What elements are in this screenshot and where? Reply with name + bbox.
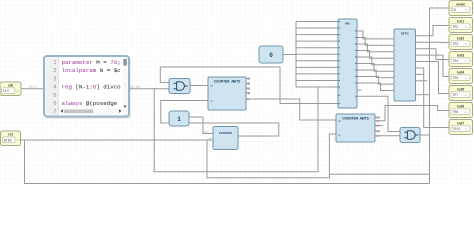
wire counter2 q1 stub xyxy=(375,116,380,118)
svg-text:4: 4 xyxy=(53,85,56,91)
svg-text:led1: led1 xyxy=(457,19,464,23)
wire AND2 output to verde vertical xyxy=(420,134,430,136)
wire clk branch down to bottom rail xyxy=(154,87,318,172)
svg-text:COUNTER_4BITS: COUNTER_4BITS xyxy=(342,116,369,120)
svg-text:TR7: TR7 xyxy=(452,93,458,97)
svg-text:‹ ›: ‹ › xyxy=(16,139,19,143)
wire top loop: AND1 in1 / MUX select net xyxy=(160,67,338,104)
wire mux out3 to dffs xyxy=(357,44,394,52)
svg-text:COUNTER_4BITS: COUNTER_4BITS xyxy=(214,79,241,83)
output port led1 xyxy=(449,18,473,33)
wire mux out stub xyxy=(357,89,362,91)
wire mux input bus vertical xyxy=(295,22,297,88)
svg-text:DFFS: DFFS xyxy=(401,32,409,36)
wire dffs q2 to led2 xyxy=(416,41,450,43)
wire bus branch 11 xyxy=(296,86,338,88)
svg-text:TR10: TR10 xyxy=(452,127,460,131)
wire bus branch 6 xyxy=(296,53,338,55)
wire mux out5 to dffs xyxy=(357,57,394,65)
wire counter2 q3 stub xyxy=(375,125,383,127)
wire bus branch 2 xyxy=(296,27,338,29)
wire bus branch 1 xyxy=(296,21,338,23)
svg-text:clk: clk xyxy=(8,83,13,87)
wire rst main run to FFDOPN xyxy=(21,139,214,141)
svg-text:led2: led2 xyxy=(457,36,464,40)
output port led4 xyxy=(449,69,473,84)
wire bus branch 8 xyxy=(296,66,338,68)
svg-text:rst: rst xyxy=(210,100,213,103)
svg-text:clk_s: clk_s xyxy=(203,131,209,134)
wire dffs q3 to led3 xyxy=(416,49,450,60)
output port led3 xyxy=(449,52,473,67)
wire bus branch 3 xyxy=(296,34,338,36)
svg-text:FFDOPN: FFDOPN xyxy=(219,131,231,135)
svg-text:‹ ›: ‹ › xyxy=(465,76,468,80)
output port verde xyxy=(449,1,473,16)
wire counter2 q5 to AND2 in2 xyxy=(375,135,400,137)
ff block FFDOPN xyxy=(213,127,238,150)
wire mux out10 to AND2 in1 xyxy=(357,96,400,131)
wire rst drop mid to counter2 rst xyxy=(207,134,336,178)
svg-text:TR6: TR6 xyxy=(452,76,458,80)
input port rst xyxy=(1,131,21,146)
svg-text:led3: led3 xyxy=(457,53,464,57)
and-gate AND1 xyxy=(169,79,190,94)
wire dffs q6 to led7 xyxy=(416,68,450,128)
wire bus branch 7 xyxy=(296,60,338,62)
svg-text:led6: led6 xyxy=(457,104,464,108)
wire verde vertical rail xyxy=(430,8,450,184)
editor vertical scrollbar xyxy=(123,58,128,116)
wire counter1 co to counter2 clk xyxy=(246,99,336,120)
wire mux out9 to dffs xyxy=(357,83,394,91)
svg-text:‹ ›: ‹ › xyxy=(465,59,468,63)
svg-text:‹ ›: ‹ › xyxy=(465,42,468,46)
svg-text:MX: MX xyxy=(345,22,350,26)
wire dffs q7 stub xyxy=(416,73,425,75)
wire mux out4 to dffs xyxy=(357,51,394,59)
wire bus branch 10 xyxy=(296,79,338,81)
verilog code block editor xyxy=(44,56,131,119)
wire bus branch 9 xyxy=(296,73,338,75)
module COUNTER_4BITS U2 xyxy=(336,114,375,142)
wire rst drop left to bottom-most rail xyxy=(25,140,430,184)
svg-text:always @(posedge: always @(posedge xyxy=(62,100,118,107)
output port led5 xyxy=(449,86,473,101)
svg-text:TR4: TR4 xyxy=(452,59,458,63)
wire dffs q1 to led1 xyxy=(416,26,450,36)
dff block DFFS xyxy=(394,29,416,101)
wire AND1 output to COUNTER1 clk xyxy=(190,85,208,87)
svg-text:led4: led4 xyxy=(457,70,464,74)
svg-text:led5: led5 xyxy=(457,87,464,91)
wire counter2 q4 stub xyxy=(375,130,380,132)
wire dffs bottom q to verde vertical xyxy=(416,94,430,96)
editor horizontal scrollbar xyxy=(60,109,123,115)
wire counter1 q1 stub xyxy=(246,87,250,89)
wire FFDOPN q to counter1 rst net xyxy=(161,101,279,137)
svg-text:TR2: TR2 xyxy=(452,25,458,29)
output port led2 xyxy=(449,35,473,50)
wire counter1 q3 stub xyxy=(246,77,250,79)
wire dffs q4 to led4 xyxy=(416,55,450,76)
constant 1 xyxy=(169,111,189,126)
svg-text:TR8: TR8 xyxy=(452,110,458,114)
output port led7 xyxy=(449,120,473,135)
svg-text:5: 5 xyxy=(53,93,56,99)
svg-text:6: 6 xyxy=(53,101,56,107)
input port clk xyxy=(0,82,21,96)
svg-text:3: 3 xyxy=(53,76,56,82)
mux MUX1 xyxy=(338,19,357,108)
svg-text:‹ ›: ‹ › xyxy=(16,89,19,93)
and-gate AND2 xyxy=(400,128,420,143)
wire clk net: clk input to AND1 in2 (passes under code block) xyxy=(21,88,169,90)
output port led6 xyxy=(449,103,473,118)
svg-text:‹ ›: ‹ › xyxy=(465,8,468,12)
mux output pin ticks xyxy=(355,30,356,96)
wire mux out6 to dffs xyxy=(357,64,394,72)
svg-text:‹ ›: ‹ › xyxy=(465,25,468,29)
svg-text:1: 1 xyxy=(53,60,56,66)
svg-text:BTN0: BTN0 xyxy=(4,139,13,143)
svg-text:‹ ›: ‹ › xyxy=(465,127,468,131)
wire AND2 net bottom rail to counter2 rst riser xyxy=(329,173,429,175)
canvas background grid xyxy=(0,0,474,187)
svg-text:led7: led7 xyxy=(457,121,464,125)
pin labels counter2 q3 q2 q1 q0 co xyxy=(377,115,380,137)
svg-text:7: 7 xyxy=(53,109,56,115)
svg-text:‹ ›: ‹ › xyxy=(465,93,468,97)
wire mux out7 to dffs xyxy=(357,70,394,78)
svg-text:TR3: TR3 xyxy=(452,42,458,46)
svg-text:CLK: CLK xyxy=(3,89,10,93)
svg-text:clk_in: clk_in xyxy=(29,84,37,88)
svg-text:D0: D0 xyxy=(452,8,456,12)
svg-text:localparam N = $c: localparam N = $c xyxy=(62,67,122,74)
svg-text:‹ ›: ‹ › xyxy=(465,110,468,114)
svg-text:clk_out: clk_out xyxy=(131,85,141,89)
wire counter2 q2 to led6 xyxy=(375,106,449,121)
wire counter1 q0 stub xyxy=(246,92,250,94)
wire mux out1 to dffs xyxy=(357,31,394,39)
wire counter1 q2 stub xyxy=(246,82,250,84)
wire bus branch 4 xyxy=(296,40,338,42)
pin labels counter1 q3 q2 q1 q0 co xyxy=(247,77,250,102)
svg-text:parameter M = 78;: parameter M = 78; xyxy=(62,59,121,66)
wire dffs q8 stub xyxy=(416,80,428,82)
svg-text:rst: rst xyxy=(338,134,341,137)
svg-text:rst: rst xyxy=(8,133,13,137)
module COUNTER_4BITS U1 xyxy=(208,77,246,110)
wire mux out2 to dffs xyxy=(357,38,394,46)
wire mux out8 to dffs xyxy=(357,77,394,85)
wire const0 to mux bus vertical xyxy=(283,54,296,56)
svg-text:2: 2 xyxy=(53,68,56,74)
svg-text:reg [N-1:0] divco: reg [N-1:0] divco xyxy=(62,84,122,91)
wire const1 to FFDOPN clk xyxy=(189,117,214,134)
mux input pin ticks xyxy=(339,21,340,104)
wire dffs q5 to led5 xyxy=(416,62,450,94)
wire bus branch 5 xyxy=(296,47,338,49)
svg-text:verde: verde xyxy=(456,2,465,6)
constant 0 xyxy=(259,46,283,63)
